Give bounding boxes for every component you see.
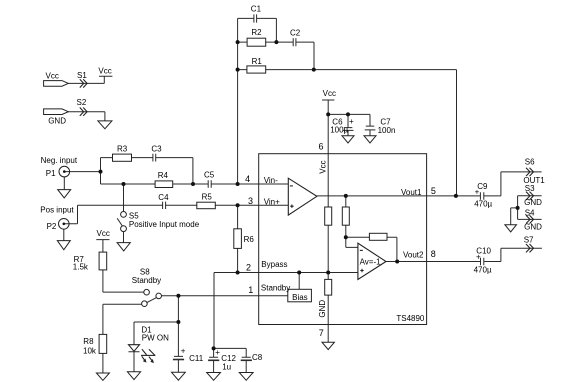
svg-text:+: + bbox=[215, 348, 220, 357]
svg-text:Bias: Bias bbox=[292, 293, 308, 302]
svg-text:R4: R4 bbox=[158, 171, 169, 180]
svg-text:1.5k: 1.5k bbox=[73, 262, 89, 271]
svg-text:Vcc: Vcc bbox=[97, 229, 110, 238]
svg-text:R5: R5 bbox=[202, 192, 213, 201]
svg-text:C3: C3 bbox=[151, 144, 162, 153]
svg-text:1: 1 bbox=[248, 285, 253, 295]
svg-text:Pos input: Pos input bbox=[40, 205, 74, 214]
svg-text:C8: C8 bbox=[252, 353, 263, 362]
svg-text:S7: S7 bbox=[524, 236, 534, 245]
svg-text:5: 5 bbox=[431, 186, 436, 196]
svg-text:Standby: Standby bbox=[261, 284, 290, 293]
svg-text:P1: P1 bbox=[46, 169, 56, 178]
svg-text:GND: GND bbox=[524, 198, 542, 207]
svg-text:GND: GND bbox=[318, 300, 327, 318]
svg-text:R3: R3 bbox=[117, 144, 128, 153]
svg-text:Vcc: Vcc bbox=[323, 89, 336, 98]
svg-text:+: + bbox=[475, 187, 480, 196]
svg-text:GND: GND bbox=[48, 116, 66, 125]
svg-text:6: 6 bbox=[318, 141, 323, 151]
svg-text:470µ: 470µ bbox=[474, 200, 492, 209]
svg-text:1u: 1u bbox=[222, 362, 231, 371]
svg-text:S4: S4 bbox=[525, 208, 535, 217]
svg-text:Vcc: Vcc bbox=[98, 66, 111, 75]
svg-text:470µ: 470µ bbox=[474, 266, 492, 275]
svg-text:P2: P2 bbox=[47, 222, 57, 231]
svg-text:10k: 10k bbox=[83, 347, 97, 356]
svg-text:C5: C5 bbox=[204, 171, 215, 180]
svg-text:Positive Input mode: Positive Input mode bbox=[129, 220, 200, 229]
svg-text:Vout2: Vout2 bbox=[403, 251, 424, 260]
svg-text:C1: C1 bbox=[251, 5, 262, 14]
svg-text:S1: S1 bbox=[77, 71, 87, 80]
svg-text:Vcc: Vcc bbox=[46, 71, 59, 80]
svg-text:+: + bbox=[181, 347, 186, 356]
svg-text:S2: S2 bbox=[77, 98, 87, 107]
svg-text:3: 3 bbox=[248, 196, 253, 206]
svg-text:Bypass: Bypass bbox=[261, 260, 287, 269]
svg-text:R6: R6 bbox=[244, 235, 255, 244]
svg-text:Vin-: Vin- bbox=[264, 176, 278, 185]
svg-text:C4: C4 bbox=[158, 193, 169, 202]
svg-text:S3: S3 bbox=[525, 184, 535, 193]
svg-text:4: 4 bbox=[245, 174, 250, 184]
svg-text:R2: R2 bbox=[251, 28, 262, 37]
svg-text:R1: R1 bbox=[252, 57, 263, 66]
svg-text:PW ON: PW ON bbox=[142, 334, 169, 343]
svg-text:GND: GND bbox=[524, 223, 542, 232]
svg-text:7: 7 bbox=[319, 328, 324, 338]
svg-text:TS4890: TS4890 bbox=[396, 314, 425, 323]
svg-text:Av=-1: Av=-1 bbox=[360, 257, 382, 266]
svg-text:100n: 100n bbox=[378, 126, 396, 135]
svg-text:100µ: 100µ bbox=[330, 126, 348, 135]
svg-text:C11: C11 bbox=[189, 354, 204, 363]
svg-text:8: 8 bbox=[431, 249, 436, 259]
svg-text:R8: R8 bbox=[83, 337, 94, 346]
svg-text:Vin+: Vin+ bbox=[264, 197, 280, 206]
svg-text:+: + bbox=[476, 252, 481, 261]
svg-text:S6: S6 bbox=[525, 157, 535, 166]
svg-text:Vcc: Vcc bbox=[319, 160, 328, 173]
svg-text:2: 2 bbox=[246, 262, 251, 272]
svg-text:Neg. input: Neg. input bbox=[41, 156, 78, 165]
svg-text:C2: C2 bbox=[290, 29, 301, 38]
svg-text:+: + bbox=[349, 117, 354, 126]
svg-text:Vout1: Vout1 bbox=[401, 188, 422, 197]
svg-text:Standby: Standby bbox=[132, 276, 161, 285]
